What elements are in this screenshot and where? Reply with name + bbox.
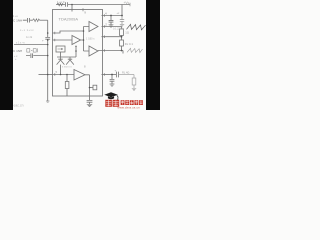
resistor Rz 1ohm — [120, 29, 124, 36]
IC box TDA2009A outline — [53, 10, 103, 97]
ground C2 — [120, 24, 124, 26]
svg-text:0.1 2200u: 0.1 2200u — [113, 27, 125, 30]
wire pin1 — [102, 36, 122, 41]
text labels — [13, 0, 133, 107]
wire pin9 drop — [71, 5, 73, 12]
ground below box — [87, 104, 92, 106]
wire +V vertical — [121, 5, 123, 16]
left bus vertical — [47, 20, 49, 101]
resistor input zigzag — [33, 19, 40, 22]
watermark red seal char 2 — [113, 100, 120, 107]
amplifier triangle bottom — [74, 70, 85, 81]
left black scan bar — [0, 0, 13, 110]
wire bottom amp out — [85, 75, 90, 100]
wire pin2 output — [102, 27, 122, 30]
svg-text:Rx 0.1: Rx 0.1 — [125, 42, 134, 46]
svg-text:C 1NH: C 1NH — [13, 49, 22, 53]
rail end terminal — [129, 3, 131, 6]
ground RL — [132, 88, 136, 90]
svg-text:1 +x C: 1 +x C — [57, 0, 65, 4]
capacitor below box — [87, 101, 93, 105]
svg-text:eac.cn: eac.cn — [14, 103, 24, 107]
junction dots — [110, 15, 112, 17]
wire to load RL — [119, 75, 134, 79]
wire transistor to input — [60, 65, 62, 75]
watermark graduation cap — [104, 92, 118, 101]
resistor R feedback — [66, 75, 68, 97]
ground left bus — [46, 101, 49, 102]
ground C1 — [109, 25, 114, 27]
capacitor C4 series output — [117, 72, 119, 78]
wire input bottom amp — [53, 74, 75, 76]
svg-text:RL 4Ω: RL 4Ω — [122, 70, 129, 74]
svg-text:www.dzxz.ys.cn: www.dzxz.ys.cn — [118, 106, 141, 110]
ground C3 — [110, 84, 115, 86]
input network C R top — [23, 18, 33, 23]
wire branch to B2 — [90, 87, 94, 89]
background — [0, 0, 160, 110]
wire pin bottom out — [102, 74, 117, 76]
transistor Q1 — [57, 57, 65, 65]
svg-text:1Ω: 1Ω — [125, 31, 129, 35]
wire input1 to A1 — [53, 27, 90, 52]
label marks row2 — [27, 48, 38, 52]
svg-text:x~x 1+xx: x~x 1+xx — [20, 29, 34, 32]
component B2 — [93, 85, 97, 90]
svg-text:TDA2009A: TDA2009A — [59, 17, 79, 22]
watermark red text dianzi xiazaizhan — [121, 100, 143, 105]
capacitor C1 — [109, 16, 114, 25]
svg-text:+: + — [42, 39, 44, 43]
arrow in B1 — [58, 48, 63, 50]
resistor RL — [132, 78, 136, 85]
input network 2 — [26, 53, 48, 58]
svg-text:x 1 x ~x: x 1 x ~x — [16, 42, 25, 45]
capacitor C2 — [120, 16, 124, 25]
wire to lower amp out — [98, 46, 123, 54]
wire pin left low — [39, 74, 53, 76]
right black scan bar — [146, 0, 160, 110]
amplifier triangle A1 — [89, 22, 98, 32]
capacitor Cz — [120, 40, 124, 46]
protection block B1 — [56, 46, 65, 52]
resistor on rail — [57, 3, 63, 6]
svg-text:+VS: +VS — [124, 1, 130, 5]
capacitor on rail — [66, 2, 68, 7]
wire RL to ground — [133, 85, 135, 88]
capacitor C3 to ground — [110, 75, 115, 84]
waveform W2 — [127, 48, 143, 52]
svg-text:x xxx x x: x xxx x x — [62, 65, 72, 68]
svg-text:+: + — [115, 68, 117, 72]
pin ticks right edge — [103, 14, 105, 76]
amplifier triangle pre-stage — [72, 36, 81, 45]
wire B1 down — [60, 52, 62, 57]
top supply rail wire — [56, 4, 130, 6]
watermark red seal char 1 — [105, 100, 112, 107]
svg-text:1n 2k: 1n 2k — [26, 36, 33, 39]
output stage bus — [57, 46, 76, 57]
wire pin4 — [102, 15, 123, 17]
pin tick top — [82, 8, 84, 11]
waveform W1 — [127, 24, 146, 30]
wire input2 to pre-stage — [53, 39, 84, 41]
capacitor on bus — [45, 37, 50, 39]
amplifier triangle A2 — [89, 46, 98, 56]
pin ticks left edge — [54, 32, 56, 76]
wire long mid — [14, 44, 48, 46]
svg-text:1 1B0 x: 1 1B0 x — [86, 38, 95, 41]
svg-text:C 1NH: C 1NH — [13, 19, 22, 23]
transistor Q2 — [66, 57, 74, 65]
